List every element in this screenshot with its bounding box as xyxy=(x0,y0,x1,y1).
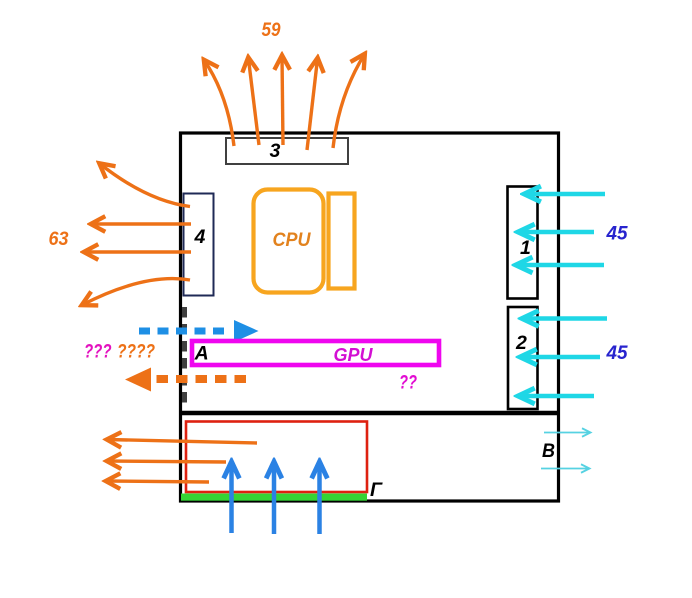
fan 3 (top exhaust) xyxy=(226,138,348,164)
label 45 lower xyxy=(606,343,628,364)
arrow top 3 xyxy=(282,56,283,146)
arrow right fan1 b xyxy=(518,230,594,235)
svg-text:Г: Г xyxy=(370,479,383,501)
blue dashed arrow (node A inflow) xyxy=(139,320,259,342)
arrow psu out 3 xyxy=(106,481,209,482)
svg-text:A: A xyxy=(194,342,209,364)
svg-text:???: ??? xyxy=(84,342,112,363)
svg-text:3: 3 xyxy=(270,140,281,162)
arrow left 4 (curved down-left) xyxy=(82,279,190,305)
orange dashed arrow (node A outflow) xyxy=(125,368,246,392)
fan 4 (left exhaust) xyxy=(184,194,214,296)
svg-text:2: 2 xyxy=(515,332,527,354)
label 59 xyxy=(262,20,281,41)
svg-text:????: ???? xyxy=(117,342,155,363)
svg-text:В: В xyxy=(542,440,555,462)
label G (Cyrillic Ghe) xyxy=(370,479,383,501)
arrow right fan1 a xyxy=(525,192,606,197)
gray dashed partition line xyxy=(182,307,187,405)
fan 2 (right intake) xyxy=(508,307,538,409)
arrow psu intake 1 xyxy=(229,462,234,533)
CPU xyxy=(254,190,324,293)
label B xyxy=(542,440,555,462)
node A label xyxy=(194,342,209,364)
arrow top 1 (curved left) xyxy=(204,60,234,146)
svg-text:CPU: CPU xyxy=(273,230,312,251)
RAM block xyxy=(329,194,355,289)
case outline xyxy=(181,133,559,501)
arrow psu intake 3 xyxy=(317,462,322,534)
svg-text:45: 45 xyxy=(606,224,628,245)
arrow left 1 (curved up-left) xyxy=(100,164,191,207)
svg-text:59: 59 xyxy=(262,20,281,41)
arrow left 2 xyxy=(91,222,191,225)
divider wall xyxy=(179,411,560,416)
label ??? ???? xyxy=(84,342,155,363)
label 45 upper xyxy=(606,224,628,245)
arrow top 5 (curved right) xyxy=(333,54,365,148)
svg-text:1: 1 xyxy=(520,237,531,259)
label 63 xyxy=(49,229,69,250)
arrow right fan2 b xyxy=(520,355,600,360)
arrow top 4 xyxy=(307,58,318,150)
svg-text:63: 63 xyxy=(49,229,69,250)
arrow right fan2 c xyxy=(518,394,594,399)
arrow right fan2 a xyxy=(522,316,607,321)
arrow right fan1 c xyxy=(516,263,604,268)
thin vent arrow B1 xyxy=(544,432,590,434)
svg-text:??: ?? xyxy=(399,373,417,394)
arrow top 2 xyxy=(248,58,259,146)
arrow psu out 1 xyxy=(107,440,257,444)
arrow left 3 xyxy=(84,250,191,253)
label ?? xyxy=(399,373,417,394)
thin vent arrow B2 xyxy=(541,468,589,470)
arrow psu out 2 xyxy=(107,461,226,462)
svg-text:45: 45 xyxy=(606,343,628,364)
fan 1 (right intake) xyxy=(508,187,538,299)
green vent bar xyxy=(181,494,367,501)
GPU xyxy=(192,341,439,365)
svg-text:4: 4 xyxy=(194,226,206,248)
svg-text:GPU: GPU xyxy=(334,345,374,365)
PSU shroud (red rect) xyxy=(186,422,367,493)
arrow psu intake 2 xyxy=(272,462,277,534)
